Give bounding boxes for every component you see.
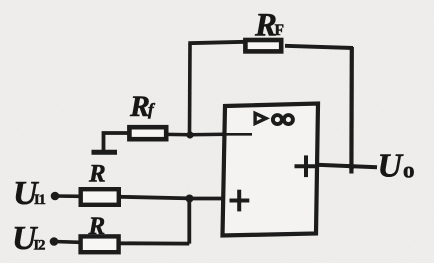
wire R2 right — [119, 241, 189, 245]
label RF — [254, 8, 284, 44]
label UI2 — [12, 220, 45, 257]
node B junction dot — [186, 195, 194, 203]
label Rf — [129, 90, 156, 123]
wire Rf output to node A — [166, 133, 191, 137]
label U0 — [378, 148, 415, 185]
node C output junction — [349, 164, 355, 170]
resistor RF — [245, 40, 281, 51]
wire inverting input — [189, 133, 226, 137]
wire feedback top left segment — [188, 42, 245, 43]
terminal UI1 — [51, 192, 60, 201]
resistor Rf — [129, 127, 166, 139]
svg-text:I1: I1 — [34, 192, 46, 208]
node A junction dot — [186, 131, 193, 138]
terminal UI2 — [50, 237, 59, 246]
ground — [92, 150, 118, 155]
wire feedback vertical left — [188, 44, 192, 136]
label R2 — [88, 213, 106, 240]
plus sign noninverting input — [230, 190, 250, 212]
svg-text:R: R — [88, 213, 106, 240]
wire feedback top right segment — [285, 46, 353, 48]
wire R1 to node B — [120, 197, 191, 199]
label UI1 — [13, 175, 46, 212]
wire Rf left elbow to ground — [104, 133, 130, 152]
wire vertical up to node B — [187, 199, 191, 244]
svg-text:R: R — [88, 161, 106, 188]
op-amp gain symbol (triangle + infinity) — [255, 113, 293, 124]
wire output — [317, 165, 378, 168]
wire feedback vertical right — [349, 47, 354, 174]
wire UI1 to R1 — [55, 194, 80, 198]
svg-text:R: R — [129, 90, 150, 123]
resistor R1 — [81, 189, 119, 205]
wire node B to noninverting input — [189, 197, 224, 201]
plus sign output — [295, 155, 319, 177]
resistor R2 — [81, 236, 119, 252]
inverting input lead inside box — [224, 133, 252, 136]
svg-text:I2: I2 — [34, 237, 46, 253]
label R1 — [88, 161, 106, 188]
wire UI2 to R2 — [54, 240, 80, 244]
svg-text:o: o — [403, 158, 415, 183]
op-amp U1 box — [223, 104, 319, 236]
svg-text:U: U — [378, 148, 405, 185]
svg-text:F: F — [275, 22, 284, 39]
